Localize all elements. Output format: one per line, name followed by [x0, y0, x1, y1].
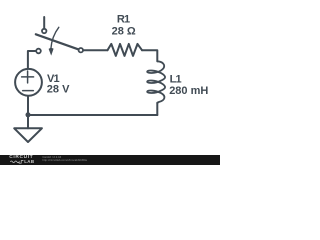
svg-text:R1: R1: [117, 14, 130, 26]
CircuitLab watermark url text line: [42, 159, 87, 162]
switch arrow head: [49, 48, 54, 56]
svg-text:280 mH: 280 mH: [169, 85, 208, 97]
CircuitLab watermark logo text CIRCUIT: [9, 156, 33, 160]
switch SW1 bottom throw terminal circle: [36, 49, 41, 54]
switch SW1 top terminal stub wire: [43, 17, 45, 28]
resistor R1 zigzag: [108, 44, 143, 56]
svg-text:28 V: 28 V: [47, 84, 70, 96]
CircuitLab watermark bar: [0, 155, 220, 165]
wire V1 bottom to ground junction: [27, 97, 29, 129]
switch SW1 top throw terminal circle: [42, 29, 46, 33]
voltage source V1 circle: [15, 69, 42, 96]
inductor L1 bottom lead: [156, 103, 158, 115]
CircuitLab watermark logo text LAB: [24, 160, 34, 164]
wire from switch bottom throw to V1: [28, 51, 36, 68]
CircuitLab watermark version text line: [42, 156, 61, 159]
bottom rail wire: [28, 114, 157, 116]
wire switch common to resistor: [84, 49, 108, 51]
voltage source V1 minus sign: [23, 90, 34, 92]
svg-text:L1: L1: [170, 74, 182, 86]
switch SW1 common terminal circle: [79, 48, 83, 52]
CircuitLab watermark logo wave glyph: [10, 160, 25, 164]
switch SW1 actuation arrow: [51, 27, 59, 48]
ground symbol triangle: [14, 128, 42, 142]
inductor L1 coil: [147, 61, 165, 104]
node junction dot at ground branch: [26, 112, 31, 117]
switch SW1 lever: [36, 34, 78, 49]
svg-text:28 Ω: 28 Ω: [112, 26, 136, 38]
voltage source V1 plus sign: [22, 71, 34, 83]
wire resistor to top-right corner down to inductor: [142, 50, 157, 61]
